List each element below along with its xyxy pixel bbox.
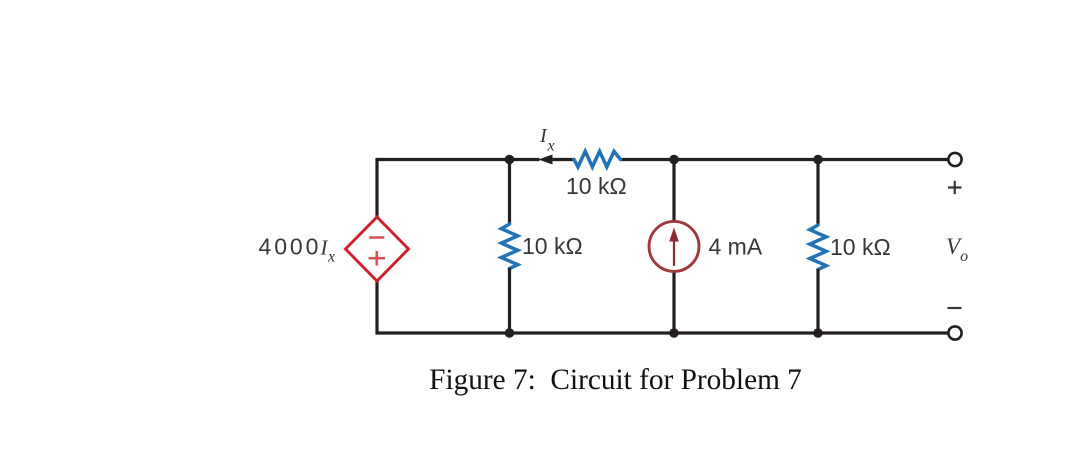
node C top dot (813, 155, 823, 165)
node C bottom dot (813, 328, 823, 338)
node B top dot (669, 155, 679, 165)
svg-text:4000: 4000 (259, 234, 322, 260)
wire column2 upper (672, 160, 675, 223)
minus label output (948, 307, 962, 309)
svg-text:x: x (547, 138, 555, 155)
svg-text:Vo: Vo (946, 234, 968, 265)
node A top dot (505, 155, 515, 165)
current source I1 arrow (673, 239, 675, 266)
wire column3 upper (816, 160, 819, 226)
svg-text:10 kΩ: 10 kΩ (566, 173, 627, 199)
current arrow Ix on top wire (539, 155, 553, 165)
svg-text:10 kΩ: 10 kΩ (830, 234, 891, 260)
wire left rail upper (375, 158, 378, 218)
wire column1 lower (508, 268, 511, 333)
wire top rail left segment (377, 158, 540, 161)
wire bottom rail (377, 331, 948, 334)
minus sign inside source (369, 236, 384, 239)
wire column3 lower (816, 269, 819, 333)
resistor R2 vertical zigzag (501, 224, 517, 269)
wire column1 upper (508, 160, 511, 225)
dependent source U1 diamond (346, 217, 409, 281)
terminal top circle (948, 153, 961, 166)
node A bottom dot (505, 328, 515, 338)
svg-text:10 kΩ: 10 kΩ (522, 233, 583, 259)
plus sign inside source (369, 251, 386, 266)
wire top rail middle segment (548, 158, 575, 161)
wire left rail lower (375, 280, 378, 335)
svg-text:x: x (327, 249, 335, 266)
node B bottom dot (669, 328, 679, 338)
plus label output (948, 181, 962, 195)
current source I1 circle (649, 221, 699, 271)
wire column2 lower (672, 271, 675, 333)
resistor R1 horizontal zigzag (574, 151, 621, 167)
svg-text:Figure 7: Circuit for Problem: Figure 7: Circuit for Problem 7 (429, 364, 802, 396)
terminal bottom circle (948, 326, 961, 339)
resistor R3 vertical zigzag (810, 225, 826, 270)
svg-text:4 mA: 4 mA (709, 234, 763, 260)
wire top rail right segment (620, 158, 948, 161)
